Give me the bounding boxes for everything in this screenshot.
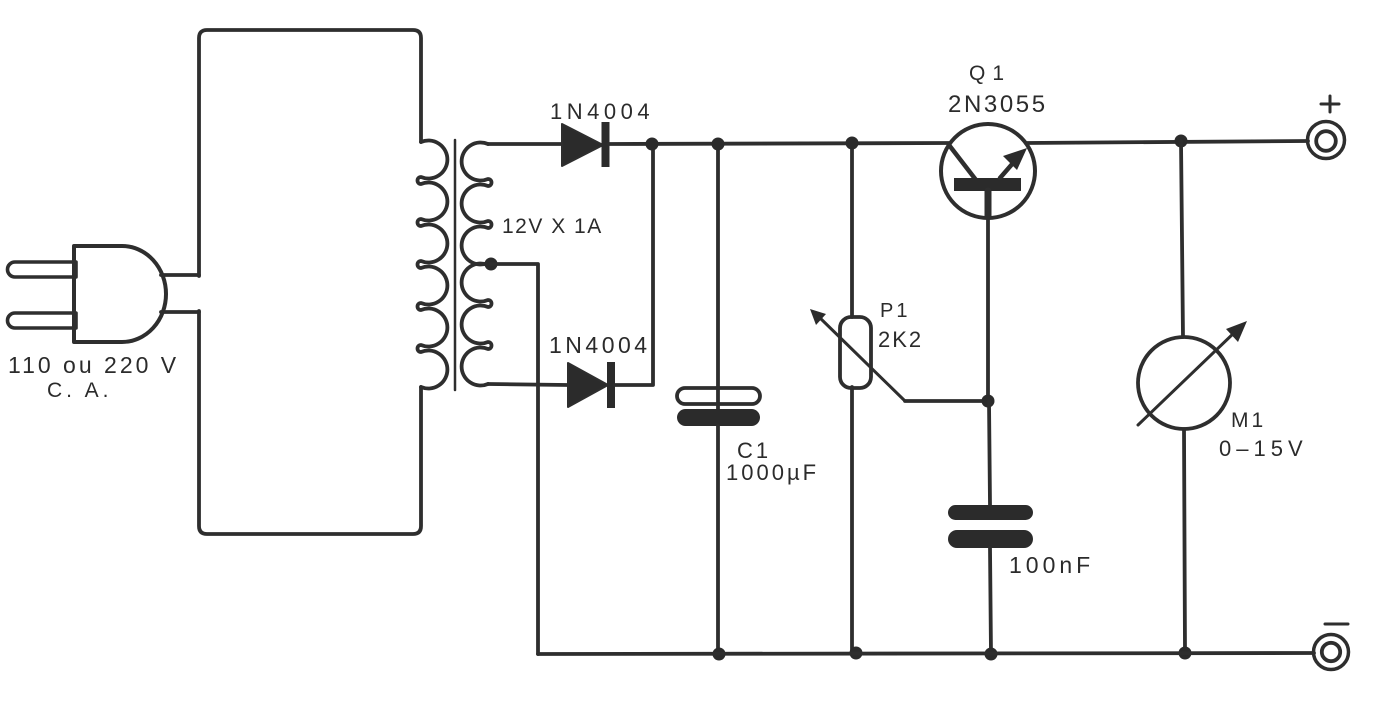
- potentiometer P1 body: [840, 317, 871, 388]
- wire plug top to primary loop: [161, 273, 199, 277]
- svg-text:1N4004: 1N4004: [549, 332, 651, 358]
- svg-text:12V X 1A: 12V X 1A: [502, 215, 603, 238]
- wire C1 from top rail down: [716, 144, 720, 410]
- wire top rail Q1 to + terminal: [1026, 141, 1308, 143]
- node junction C2 bottom: [985, 648, 998, 661]
- wire primary top loop: [199, 30, 421, 276]
- node junction D2/top rail: [646, 138, 659, 151]
- node junction meter top: [1175, 135, 1188, 148]
- node junction P1 bottom: [850, 647, 863, 660]
- svg-text:C. A.: C. A.: [47, 379, 113, 402]
- node junction meter bottom: [1179, 647, 1192, 660]
- terminal + output: [1308, 96, 1345, 159]
- node junction P1 top: [846, 137, 859, 150]
- transistor Q1 2N3055: [941, 124, 1035, 218]
- node junction Q1 base / wiper: [982, 395, 995, 408]
- wire Q1 base down: [986, 216, 990, 401]
- svg-text:1000µF: 1000µF: [726, 460, 819, 485]
- diode D2 1N4004: [568, 362, 615, 408]
- node junction C1 top: [712, 138, 725, 151]
- wire C2 to bottom rail: [990, 548, 991, 654]
- diode D1 1N4004: [562, 122, 610, 167]
- wire P1 wiper to Q1 base: [905, 399, 988, 403]
- wire top rail D1 to Q1: [609, 143, 950, 144]
- capacitor C1 top plate: [677, 388, 760, 404]
- svg-text:P1: P1: [880, 300, 910, 322]
- svg-text:2K2: 2K2: [878, 327, 923, 352]
- wire plug bottom to primary loop: [161, 310, 199, 314]
- wire bottom rail: [538, 653, 1314, 654]
- wire P1 from top rail down: [850, 143, 854, 317]
- svg-text:110 ou 220 V: 110 ou 220 V: [8, 352, 179, 378]
- wire secondary top to diode D1: [488, 142, 562, 146]
- wire primary bottom loop: [199, 311, 421, 534]
- wire meter bottom: [1184, 429, 1185, 652]
- wire secondary bottom to diode D2: [488, 384, 568, 385]
- capacitor C2 100nF bottom plate: [948, 530, 1033, 548]
- meter M1: [1138, 321, 1247, 429]
- wire C1 to bottom rail: [716, 426, 720, 654]
- capacitor C1 bottom plate: [677, 409, 760, 426]
- svg-text:0–15V: 0–15V: [1219, 436, 1308, 461]
- terminal - output: [1314, 624, 1349, 670]
- AC plug: [8, 246, 167, 342]
- svg-text:1N4004: 1N4004: [550, 99, 654, 124]
- wire center tap to bottom rail: [491, 264, 538, 654]
- potentiometer P1 wiper arrow: [810, 309, 905, 401]
- node junction C1 bottom: [713, 648, 726, 661]
- wire Q1 base node to C2: [989, 401, 990, 505]
- wire D2 up to top rail: [615, 144, 653, 385]
- svg-text:100nF: 100nF: [1009, 552, 1094, 578]
- capacitor C2 100nF top plate: [948, 505, 1033, 520]
- svg-text:M1: M1: [1231, 409, 1266, 432]
- wire meter top: [1181, 141, 1183, 337]
- transformer T1 secondary winding: [462, 143, 492, 265]
- wire P1 to bottom rail: [850, 387, 854, 654]
- svg-text:Q1: Q1: [969, 62, 1011, 85]
- node center tap: [485, 258, 498, 271]
- transformer core: [454, 140, 457, 390]
- transformer T1 primary winding: [418, 141, 448, 389]
- svg-text:2N3055: 2N3055: [948, 91, 1048, 118]
